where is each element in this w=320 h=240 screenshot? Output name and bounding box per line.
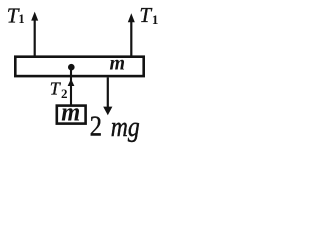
- label T2: [50, 78, 68, 101]
- tension arrow T1 right: [128, 13, 135, 56]
- label T1 left: [7, 4, 25, 28]
- svg-text:mg: mg: [111, 111, 140, 143]
- svg-text:T: T: [139, 3, 152, 27]
- attachment node (dot on bar): [68, 64, 75, 71]
- hanging mass box m: [57, 106, 86, 124]
- string from dot to hanging mass: [70, 67, 72, 106]
- weight arrow 2mg (down): [103, 78, 112, 116]
- svg-text:m: m: [110, 53, 126, 75]
- label m (on bar): [110, 53, 126, 75]
- tension arrow T1 left: [31, 12, 38, 57]
- label T1 right: [139, 3, 158, 27]
- svg-text:2: 2: [90, 112, 102, 143]
- bar (rod) m: [15, 57, 143, 76]
- label 2 mg: [90, 111, 140, 143]
- tension arrowhead T2 (up, on string): [68, 79, 75, 86]
- svg-text:1: 1: [152, 12, 159, 27]
- label m (hanging mass): [61, 98, 80, 127]
- svg-text:m: m: [61, 98, 80, 127]
- svg-text:1: 1: [18, 12, 24, 26]
